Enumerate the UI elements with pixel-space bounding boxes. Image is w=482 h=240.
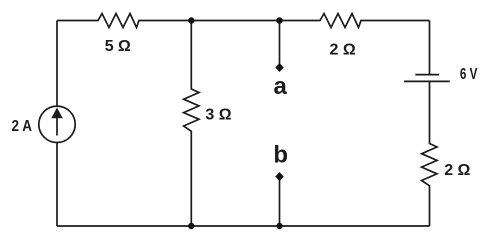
svg-text:2 Ω: 2 Ω (330, 42, 356, 59)
svg-text:b: b (273, 141, 288, 168)
svg-text:2 A: 2 A (12, 118, 33, 135)
svg-text:6 V: 6 V (460, 66, 478, 83)
svg-text:2 Ω: 2 Ω (444, 162, 470, 179)
svg-text:a: a (274, 73, 288, 100)
svg-text:5 Ω: 5 Ω (105, 38, 131, 55)
svg-text:3 Ω: 3 Ω (205, 107, 231, 124)
